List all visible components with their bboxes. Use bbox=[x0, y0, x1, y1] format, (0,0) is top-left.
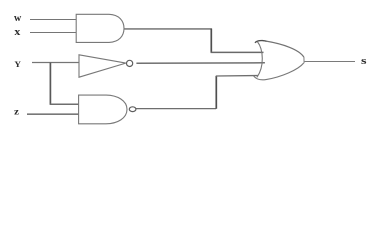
nand-gate U3 body bbox=[79, 95, 127, 124]
or-gate U4 bottom wing bbox=[254, 63, 304, 80]
svg-text:x: x bbox=[14, 27, 20, 38]
wire NOT output to OR bbox=[136, 62, 265, 64]
svg-text:w: w bbox=[14, 13, 22, 24]
wire AND output horizontal bbox=[124, 28, 212, 30]
wire S output bbox=[304, 61, 355, 63]
wire AND output vertical drop bbox=[210, 29, 212, 53]
svg-text:Y: Y bbox=[14, 60, 21, 69]
nand-gate U3 bubble bbox=[129, 107, 136, 112]
wire NAND output into OR bbox=[216, 75, 259, 78]
wire Y input bbox=[32, 62, 79, 64]
wire AND output into OR bbox=[211, 51, 264, 53]
wire X input bbox=[30, 32, 76, 34]
or-gate U4 top-left hook accent bbox=[255, 40, 267, 42]
wire W input bbox=[30, 19, 76, 21]
or-gate U4 top wing bbox=[255, 41, 303, 57]
wire Y branch horizontal to NAND pin bbox=[50, 103, 79, 105]
svg-text:s: s bbox=[361, 55, 367, 67]
not-gate U2 triangle bbox=[79, 55, 126, 77]
wire Z input bbox=[27, 113, 79, 115]
svg-text:z: z bbox=[14, 107, 19, 117]
or-gate U4 back arc bbox=[257, 42, 262, 78]
or-gate U4 blunt nose bbox=[303, 57, 305, 63]
not-gate U2 bubble bbox=[127, 60, 133, 66]
wire NAND output vertical rise bbox=[215, 76, 217, 109]
wire Y branch vertical bbox=[49, 63, 51, 105]
and-gate U1 bbox=[76, 14, 124, 42]
wire NAND output horizontal bbox=[136, 108, 216, 110]
